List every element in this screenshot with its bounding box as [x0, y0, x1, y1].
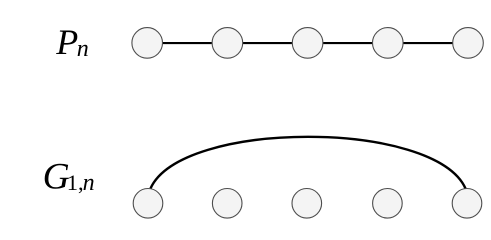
- node v5: [453, 28, 484, 59]
- node v2: [212, 28, 243, 59]
- node u5: [452, 189, 482, 219]
- node u1: [133, 189, 163, 219]
- svg-text:n: n: [77, 36, 89, 62]
- node u3: [292, 189, 322, 219]
- svg-text:1,: 1,: [67, 170, 84, 195]
- label P_n: [55, 22, 89, 62]
- svg-text:G: G: [43, 156, 70, 197]
- wire path edges P_n: [147, 42, 468, 44]
- node u4: [373, 189, 403, 219]
- svg-text:n: n: [83, 170, 95, 196]
- node u2: [212, 189, 242, 219]
- svg-text:P: P: [55, 22, 78, 62]
- node v4: [373, 28, 404, 59]
- wire arc edge u1-u5: [151, 137, 466, 189]
- node v3: [292, 28, 323, 59]
- node v1: [132, 28, 163, 59]
- label G_1,n: [43, 156, 95, 197]
